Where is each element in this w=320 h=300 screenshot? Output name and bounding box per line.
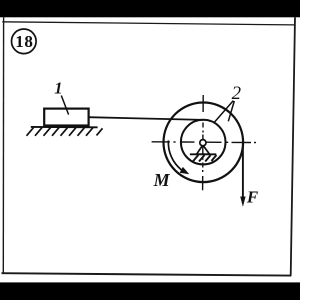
top black bar — [0, 0, 300, 17]
svg-text:18: 18 — [15, 32, 33, 51]
inner pulley circle — [181, 120, 226, 165]
centerline dash inside triangle — [202, 147, 204, 154]
leader line a for label 2 (to inner circle) — [214, 101, 234, 124]
horizontal centerline — [152, 141, 256, 144]
outer pulley circle — [164, 103, 244, 183]
svg-text:F: F — [246, 188, 259, 207]
rope to force F — [242, 142, 244, 198]
moment arrow M arc — [168, 140, 181, 170]
leader line for label 1 — [61, 96, 68, 115]
svg-text:1: 1 — [54, 79, 62, 98]
pivot hatching — [193, 155, 217, 162]
leader line b for label 2 (to outer rim) — [228, 101, 234, 121]
force arrow F head — [240, 197, 245, 207]
rope from block to pulley — [88, 117, 203, 120]
moment arrow M head — [180, 167, 190, 174]
right border — [291, 17, 295, 276]
bottom black bar — [0, 282, 300, 300]
ground line under block — [31, 126, 98, 128]
ground hatching — [27, 128, 103, 136]
vertical centerline — [202, 95, 205, 190]
svg-text:M: M — [153, 170, 171, 190]
top border — [2, 22, 294, 25]
pivot triangle — [197, 145, 210, 154]
bottom border — [2, 273, 292, 275]
problem number badge circle — [11, 29, 36, 54]
pivot base line — [190, 153, 216, 155]
left border — [2, 17, 4, 274]
pivot pin — [200, 140, 206, 146]
block 1 — [44, 109, 88, 126]
